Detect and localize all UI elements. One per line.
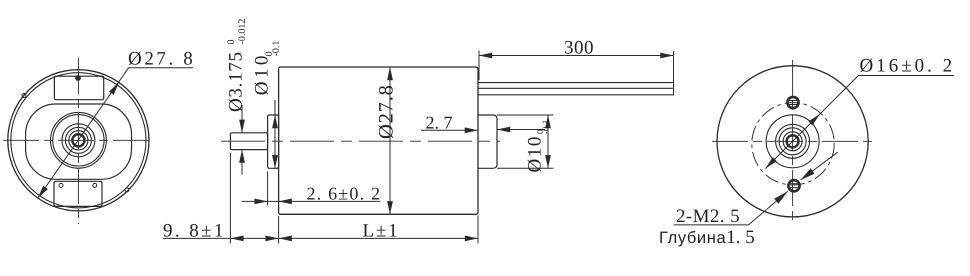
svg-text:Ø10: Ø10 — [524, 135, 545, 173]
svg-text:2. 7: 2. 7 — [426, 113, 453, 133]
svg-text:Ø16±0. 2: Ø16±0. 2 — [860, 56, 956, 77]
svg-text:2. 6±0. 2: 2. 6±0. 2 — [307, 184, 382, 204]
svg-text:Ø10: Ø10 — [251, 52, 272, 95]
svg-text:-0.1: -0.1 — [541, 120, 551, 134]
svg-text:Ø3.175: Ø3.175 — [226, 51, 247, 112]
svg-text:-0.012: -0.012 — [237, 19, 248, 45]
svg-text:0: 0 — [226, 40, 237, 45]
svg-text:Глубина1. 5: Глубина1. 5 — [659, 227, 755, 248]
svg-text:300: 300 — [564, 38, 594, 59]
svg-text:2-M2. 5: 2-M2. 5 — [676, 206, 740, 227]
svg-text:Ø27. 8: Ø27. 8 — [128, 49, 195, 70]
svg-text:9. 8±1: 9. 8±1 — [163, 221, 226, 242]
svg-text:L±1: L±1 — [363, 221, 400, 242]
svg-text:Ø27.8: Ø27.8 — [376, 84, 398, 139]
svg-text:-0.1: -0.1 — [271, 41, 282, 57]
